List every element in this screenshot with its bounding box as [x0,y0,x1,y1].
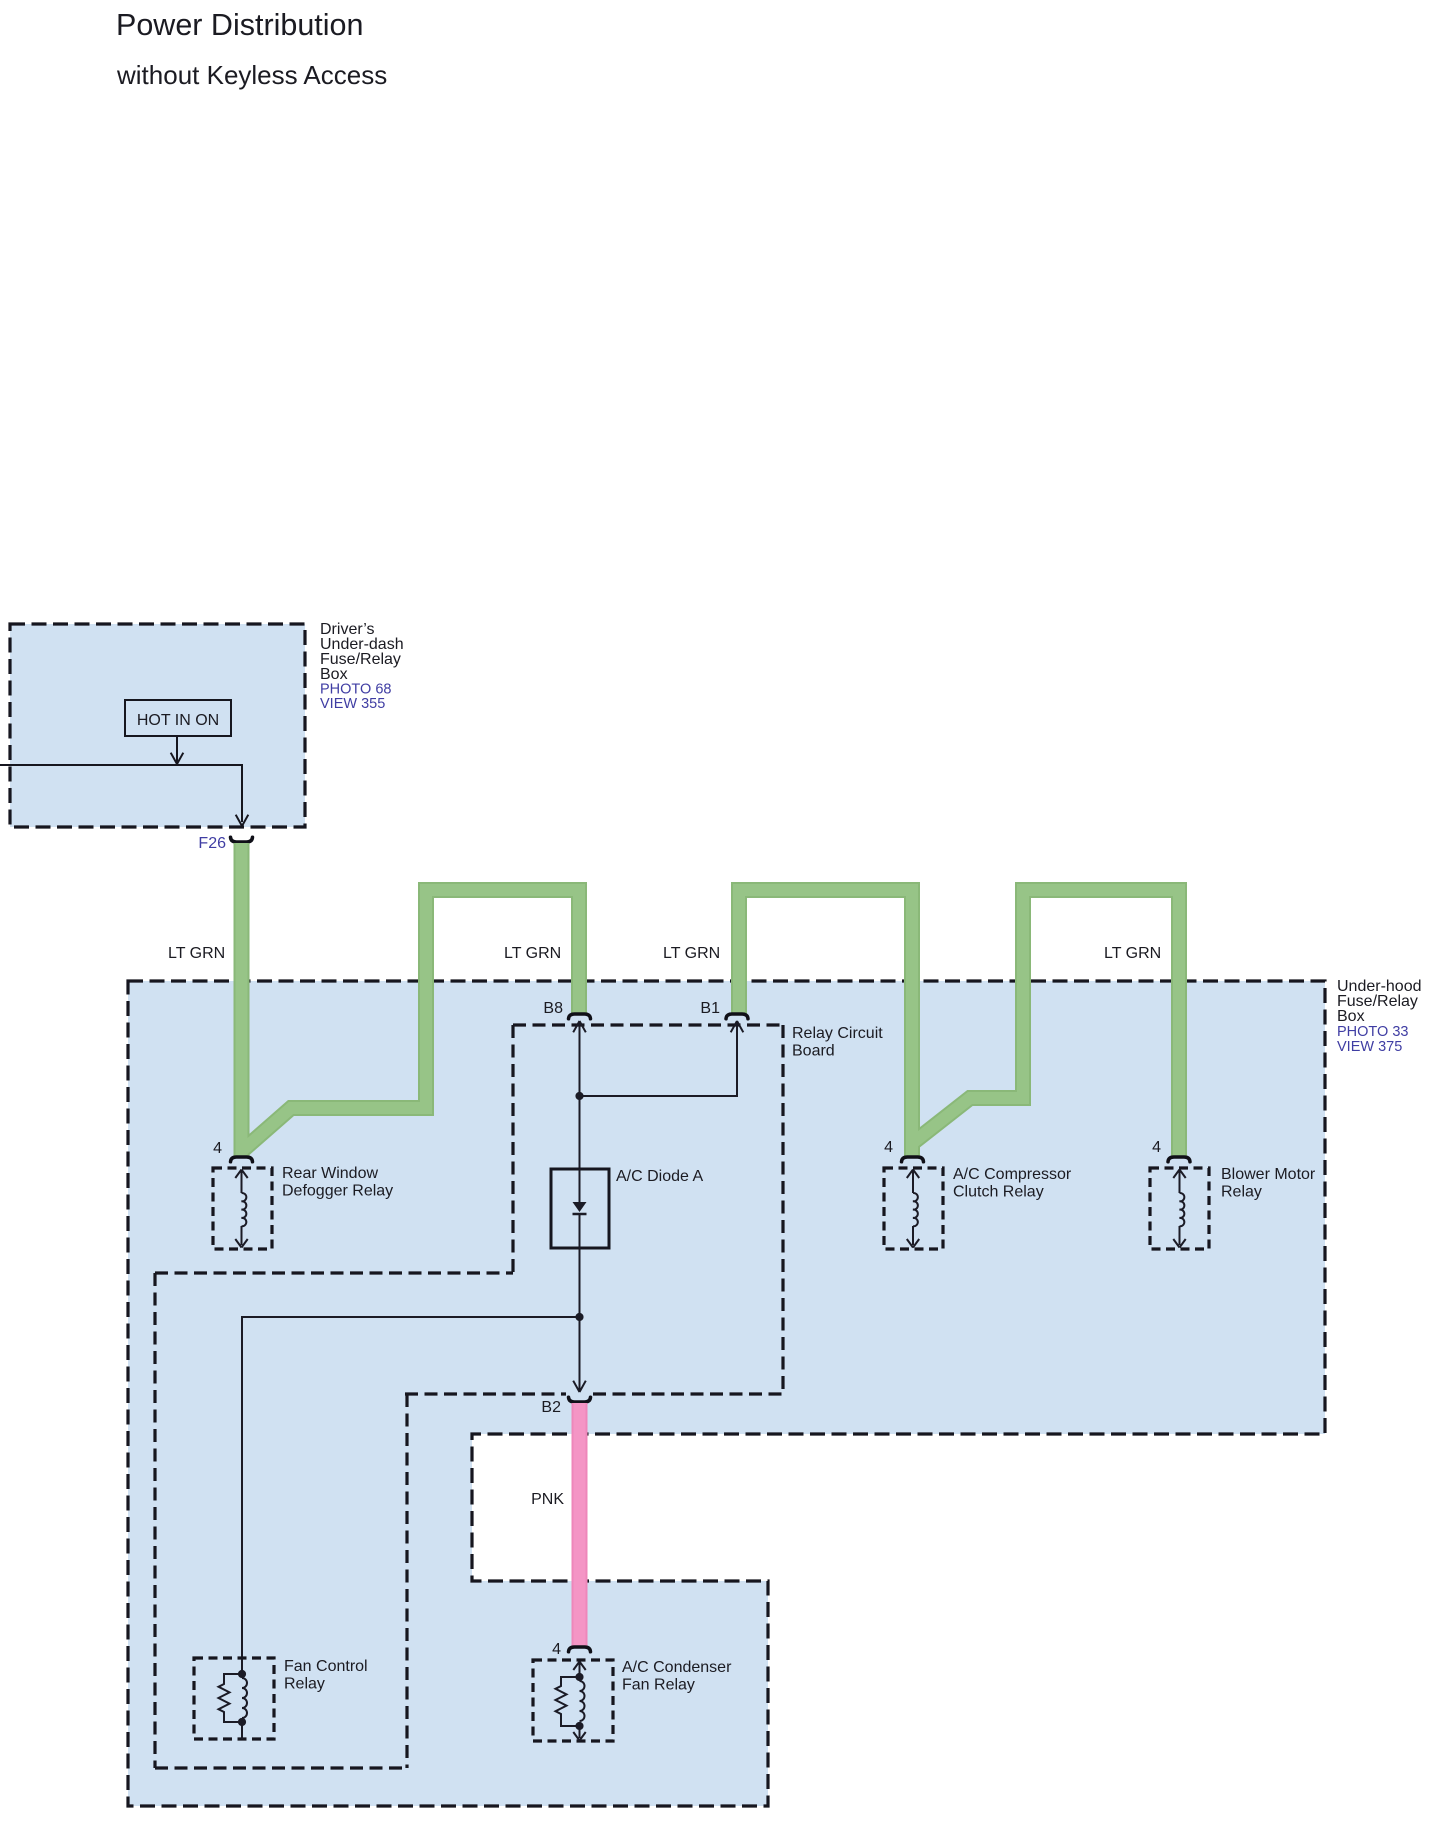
driver's under-dash fuse/relay box [10,624,305,827]
svg-text:LT GRN: LT GRN [1104,945,1161,962]
A/C condenser fan relay box [533,1660,613,1741]
wire LT GRN group (fills) [242,843,1180,1156]
svg-text:VIEW 375: VIEW 375 [1337,1039,1402,1055]
svg-text:LT GRN: LT GRN [663,945,720,962]
inner dashed box (fan control region) [155,1273,513,1768]
connector B8 [569,1014,591,1019]
svg-text:B8: B8 [543,1000,563,1017]
svg-text:Relay Circuit: Relay Circuit [792,1025,883,1042]
label Rear Window Defogger Relay [282,1165,393,1200]
fan control relay coil [242,1678,247,1718]
svg-text:F26: F26 [198,835,226,852]
node junction B8/B1 [575,1092,583,1100]
wire PNK from B2 to A/C condenser fan relay [572,1403,588,1646]
A/C condenser fan relay internals [556,1662,586,1741]
bus wire inside driver's box [0,765,248,826]
svg-text:Board: Board [792,1043,835,1060]
svg-text:PNK: PNK [531,1491,564,1508]
svg-text:LT GRN: LT GRN [504,945,561,962]
svg-text:B2: B2 [541,1399,561,1416]
label Fan Control Relay [284,1658,368,1693]
blower motor relay coil [1173,1170,1185,1248]
connector pin 4 blower motor relay [1168,1157,1190,1162]
svg-text:without Keyless Access: without Keyless Access [116,60,387,90]
wire from HOT IN ON to bus [171,736,184,764]
node junction to fan control relay [575,1313,583,1321]
svg-text:PHOTO 33: PHOTO 33 [1337,1024,1408,1040]
connector pin 4 rear window defogger relay [231,1157,253,1162]
fan control relay resistor [219,1674,243,1722]
blower motor relay box [1150,1168,1209,1249]
wire junction to B1 [580,1021,744,1096]
HOT IN ON box [125,700,231,736]
label Blower Motor Relay [1221,1166,1316,1201]
svg-text:Relay: Relay [1221,1184,1262,1201]
svg-text:A/C Diode A: A/C Diode A [616,1168,703,1185]
wire B8 into relay circuit board [573,1021,586,1169]
wire diode to B2 [573,1248,586,1392]
A/C compressor clutch relay box [884,1168,943,1249]
wire fan control relay bottom stub [241,1722,243,1739]
rear window defogger relay box [213,1168,272,1249]
node fan control relay top [238,1670,246,1678]
connector pin 4 A/C compressor clutch relay [902,1157,924,1162]
svg-text:4: 4 [552,1641,561,1658]
svg-text:4: 4 [1152,1139,1161,1156]
svg-text:Box: Box [320,666,348,683]
svg-text:A/C Condenser: A/C Condenser [622,1659,732,1676]
svg-text:4: 4 [884,1139,893,1156]
fan control relay box [194,1658,274,1739]
svg-text:VIEW 355: VIEW 355 [320,696,385,712]
label Driver's Under-dash Fuse/Relay Box PHOTO 68 VIEW 355 [320,621,404,712]
svg-text:Power Distribution: Power Distribution [116,8,364,42]
rear window defogger relay coil [235,1170,247,1248]
wire junction to fan control relay [242,1317,580,1674]
connector B1 [726,1014,748,1019]
connector F26 [231,837,253,842]
label Relay Circuit Board [792,1025,883,1060]
svg-text:Rear Window: Rear Window [282,1165,378,1182]
svg-text:Clutch Relay: Clutch Relay [953,1184,1044,1201]
svg-text:4: 4 [213,1140,222,1157]
A/C compressor clutch relay coil [907,1170,919,1248]
svg-text:HOT IN ON: HOT IN ON [137,712,219,729]
svg-text:Relay: Relay [284,1676,325,1693]
svg-text:Fan Control: Fan Control [284,1658,368,1675]
svg-text:Defogger Relay: Defogger Relay [282,1183,393,1200]
svg-text:LT GRN: LT GRN [168,945,225,962]
svg-text:Blower Motor: Blower Motor [1221,1166,1316,1183]
A/C diode A symbol [573,1169,587,1248]
svg-text:A/C Compressor: A/C Compressor [953,1166,1072,1183]
node fan control relay bottom [238,1718,246,1726]
label A/C Compressor Clutch Relay [953,1166,1072,1201]
wire LT GRN group (outlines) [242,843,1180,1156]
svg-text:B1: B1 [700,1000,720,1017]
connector B2 [569,1397,591,1402]
relay circuit board box [405,1025,783,1394]
label A/C Condenser Fan Relay [622,1659,732,1694]
under-hood fuse/relay box [128,981,1325,1806]
A/C diode A box [551,1169,609,1248]
label Under-hood Fuse/Relay Box PHOTO 33 VIEW 375 [1337,978,1422,1055]
svg-text:Box: Box [1337,1008,1365,1025]
connector pin 4 A/C condenser fan relay [569,1647,591,1652]
svg-text:Fan Relay: Fan Relay [622,1677,695,1694]
